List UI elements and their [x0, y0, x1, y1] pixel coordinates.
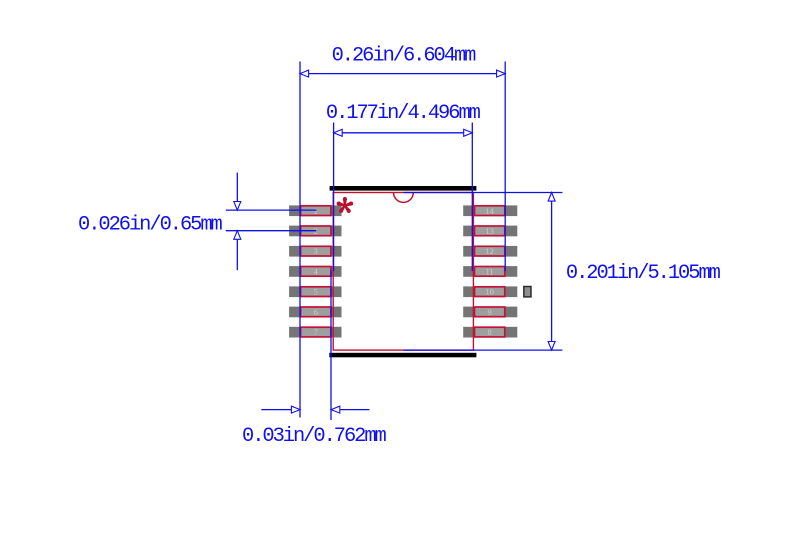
svg-text:5: 5: [314, 287, 318, 297]
dim line upper segment 0.026in: [236, 173, 238, 211]
pad 3 (left copper): [289, 246, 341, 257]
bottom silkscreen bar: [329, 353, 476, 358]
pad 10 (right copper): [463, 286, 517, 297]
svg-text:9: 9: [487, 307, 491, 317]
pad 5 outline: [301, 287, 331, 297]
pad 13 outline: [475, 226, 505, 236]
dim line left segment 0.03in: [261, 409, 300, 411]
svg-text:12: 12: [485, 246, 494, 256]
extension line left overall (x=300): [299, 62, 301, 418]
extension line body-top to right dim: [403, 192, 562, 194]
extension line right overall (x=505.2): [504, 62, 506, 272]
extension line pad2 center: [226, 230, 317, 232]
dim line right segment 0.03in: [331, 409, 369, 411]
pad 4 outline: [301, 267, 331, 277]
dim line 0.26in/6.604mm: [300, 73, 505, 75]
svg-text:13: 13: [485, 226, 494, 236]
svg-text:7: 7: [314, 327, 318, 337]
svg-text:0.201in/5.105mm: 0.201in/5.105mm: [566, 262, 721, 285]
pad 9 outline: [475, 307, 505, 317]
extension line pad1 center: [226, 209, 317, 211]
pad 10 outline: [475, 287, 505, 297]
svg-text:0.026in/0.65mm: 0.026in/0.65mm: [78, 214, 223, 237]
svg-text:0.177in/4.496mm: 0.177in/4.496mm: [326, 102, 481, 125]
svg-text:1: 1: [314, 206, 318, 216]
svg-text:11: 11: [486, 267, 494, 277]
pin 1 marker asterisk: [337, 197, 354, 213]
extension line body-bottom to right dim: [403, 349, 562, 351]
svg-text:10: 10: [485, 287, 494, 297]
pad 12 (right copper): [463, 246, 517, 257]
dim line 0.201in/5.105mm: [551, 193, 553, 351]
pad 8 (right copper): [463, 327, 517, 338]
pin-1 notch arc: [394, 193, 414, 203]
pad 4 (left copper): [289, 266, 341, 277]
pad 2 outline: [301, 226, 331, 236]
svg-text:3: 3: [314, 246, 318, 256]
pad 11 outline: [475, 267, 505, 277]
pad 7 (left copper): [289, 327, 341, 338]
svg-text:14: 14: [485, 206, 494, 216]
pad 1 outline: [301, 206, 331, 216]
extension line body-left (x=333.6): [333, 123, 335, 272]
svg-text:0.26in/6.604mm: 0.26in/6.604mm: [332, 44, 477, 67]
pad 11 (right copper): [463, 266, 517, 277]
pad 14 (right copper): [463, 205, 517, 216]
top silkscreen bar: [330, 186, 477, 191]
pad 12 outline: [475, 246, 505, 256]
pad 14 outline: [475, 206, 505, 216]
svg-text:4: 4: [314, 267, 319, 277]
IC body outline: [333, 193, 473, 351]
pad 3 outline: [301, 246, 331, 256]
dim line 0.177in/4.496mm: [334, 132, 473, 134]
pin-1 legend square: [524, 287, 531, 297]
extension line pad-dim right (x=330.7): [330, 271, 332, 421]
pad 8 outline: [475, 327, 505, 337]
dim line lower segment 0.026in: [236, 231, 238, 271]
pad 6 outline: [301, 307, 331, 317]
svg-text:0.03in/0.762mm: 0.03in/0.762mm: [242, 425, 387, 448]
pad 13 (right copper): [463, 226, 517, 237]
svg-text:6: 6: [314, 307, 318, 317]
pad 5 (left copper): [289, 286, 341, 297]
extension line body-right (x=472.3): [471, 123, 473, 272]
pad 1 (left copper): [289, 205, 341, 216]
pad 7 outline: [301, 327, 331, 337]
svg-text:8: 8: [487, 327, 491, 337]
pad 9 (right copper): [463, 307, 517, 318]
pad 6 (left copper): [289, 307, 341, 318]
pad 2 (left copper): [289, 226, 341, 237]
